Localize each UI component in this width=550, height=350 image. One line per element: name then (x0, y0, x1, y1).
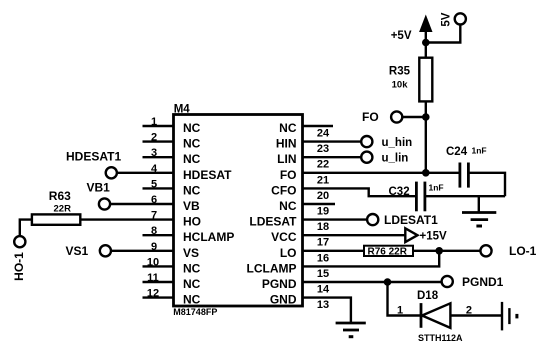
ground symbol bar 1 (462, 211, 496, 214)
svg-text:NC: NC (183, 277, 201, 291)
svg-text:VCC: VCC (271, 230, 297, 244)
pin 19 stub (303, 203, 336, 205)
capacitor C24 right plate (467, 163, 470, 188)
svg-text:3: 3 (151, 147, 157, 159)
terminal HO-1 (14, 236, 25, 247)
ground symbol bar 2 (471, 218, 489, 221)
svg-text:VB: VB (183, 199, 200, 213)
pin 14 wire (PGND net) (303, 281, 442, 283)
svg-text:C32: C32 (389, 186, 410, 198)
svg-text:4: 4 (151, 163, 158, 175)
svg-text:LO-1: LO-1 (509, 244, 537, 258)
pin 4 wire to HDESAT1 terminal (117, 172, 174, 174)
pin 11 stub (143, 281, 174, 283)
svg-text:17: 17 (317, 237, 329, 249)
wire R63 left to HO-1 (20, 220, 32, 237)
svg-text:LIN: LIN (277, 152, 296, 166)
power +15V arrow symbol (405, 228, 417, 242)
svg-text:VB1: VB1 (87, 181, 111, 195)
svg-text:CFO: CFO (271, 183, 296, 197)
junction on FO net at pin 21 wire (422, 169, 430, 177)
junction +5V node (422, 39, 430, 47)
svg-text:C24: C24 (446, 146, 468, 158)
terminal VB1 (99, 198, 110, 209)
ground symbol (pin 13) bar 1 (336, 322, 366, 325)
pin 10 stub (143, 265, 174, 267)
svg-text:NC: NC (183, 121, 201, 135)
wire FO terminal to junction (402, 116, 426, 118)
svg-text:1: 1 (151, 116, 157, 128)
pin 5 stub (143, 187, 174, 189)
svg-text:NC: NC (183, 293, 201, 307)
resistor R76 body (364, 246, 413, 256)
terminal LDESAT1 (367, 214, 378, 225)
svg-text:HDESAT1: HDESAT1 (66, 150, 121, 164)
diode D18 triangle (422, 303, 450, 328)
ground symbol (pin 13) bar 3 (349, 335, 354, 338)
svg-text:D18: D18 (417, 290, 439, 302)
pin 24 stub (303, 125, 334, 127)
svg-text:PGND: PGND (262, 277, 297, 291)
ground symbol bar 3 (476, 225, 482, 228)
resistor R63 body (32, 214, 80, 224)
junction FO tap (422, 113, 430, 121)
svg-text:23: 23 (317, 143, 329, 155)
pin 8 stub (143, 234, 174, 236)
junction PGND net (384, 278, 392, 286)
ground stem (C24/C32 rail) (478, 196, 480, 212)
pin 20 wire to C32 (303, 188, 417, 196)
wire R35 bottom to FO junction and pin21 wire (425, 101, 427, 172)
sideways ground bar 3 (515, 314, 518, 319)
svg-text:2: 2 (466, 305, 472, 317)
svg-text:5V: 5V (441, 12, 453, 26)
terminal FO (391, 111, 402, 122)
svg-text:14: 14 (317, 284, 330, 296)
pin 17 wire to +15V arrow (303, 234, 406, 236)
terminal 5V (455, 13, 466, 24)
svg-text:R76 22R: R76 22R (368, 247, 408, 258)
svg-text:11: 11 (147, 272, 159, 284)
pin 6 wire to VB1 terminal (110, 203, 174, 205)
svg-text:10: 10 (147, 256, 159, 268)
svg-text:STTH112A: STTH112A (418, 333, 463, 343)
svg-text:NC: NC (279, 121, 297, 135)
power +5V arrow symbol (419, 15, 432, 33)
pin 2 stub (143, 140, 174, 142)
pin 1 stub (143, 125, 174, 127)
svg-text:HO: HO (183, 215, 201, 229)
capacitor C32 right plate (423, 182, 426, 212)
wire PGND junction down to diode D18 (388, 282, 422, 316)
pin 13 wire to ground (303, 298, 351, 323)
svg-text:FO: FO (280, 168, 297, 182)
svg-text:24: 24 (317, 128, 330, 140)
capacitor C24 left plate (458, 163, 461, 188)
wire C32 right plate to ground rail (425, 195, 505, 197)
svg-text:15: 15 (317, 268, 329, 280)
capacitor C32 left plate (415, 182, 418, 212)
svg-text:LO: LO (280, 246, 297, 260)
pin 22 wire to u_lin terminal (303, 156, 362, 158)
svg-text:u_lin: u_lin (382, 152, 409, 164)
svg-text:6: 6 (151, 194, 157, 206)
resistor R35 body (419, 58, 432, 102)
svg-text:HO-1: HO-1 (12, 252, 26, 281)
svg-text:VS1: VS1 (66, 244, 89, 258)
svg-text:+15V: +15V (420, 231, 448, 243)
wire +5V arrow to junction (425, 32, 427, 58)
pin 16 wire to R76 (303, 250, 365, 252)
svg-text:VS: VS (183, 246, 199, 260)
svg-text:HDESAT: HDESAT (183, 168, 232, 182)
svg-text:LDESAT1: LDESAT1 (384, 213, 438, 227)
svg-text:LDESAT: LDESAT (249, 215, 297, 229)
svg-text:7: 7 (151, 210, 157, 222)
junction LO net (435, 247, 443, 255)
svg-text:NC: NC (183, 183, 201, 197)
sideways ground bar 1 (501, 302, 503, 331)
svg-text:16: 16 (317, 252, 329, 264)
terminal HDESAT1 (106, 167, 117, 178)
terminal VS1 (100, 245, 111, 256)
svg-text:R35: R35 (389, 66, 411, 78)
svg-text:2: 2 (151, 132, 157, 144)
svg-text:13: 13 (317, 299, 329, 311)
terminal u_hin (361, 136, 372, 147)
svg-text:8: 8 (151, 225, 157, 237)
svg-text:21: 21 (317, 174, 329, 186)
pin 12 stub (143, 296, 174, 298)
diode D18 cathode bar (420, 303, 423, 328)
svg-text:22R: 22R (54, 204, 72, 215)
svg-text:1nF: 1nF (472, 145, 487, 155)
terminal u_lin (361, 152, 372, 163)
pin 9 wire to VS1 terminal (111, 250, 174, 252)
ground symbol (pin 13) bar 2 (343, 329, 359, 332)
svg-text:HIN: HIN (276, 137, 297, 151)
svg-text:10k: 10k (392, 80, 409, 91)
svg-text:20: 20 (317, 190, 329, 202)
svg-text:18: 18 (317, 221, 329, 233)
svg-text:+5V: +5V (391, 30, 412, 42)
svg-text:FO: FO (362, 110, 379, 124)
pin 15 wire to LO net junction (303, 251, 440, 267)
pin 21 wire (FO net) to C24 (303, 172, 460, 174)
wire C24 right plate to corner down to ground rail (468, 173, 505, 196)
svg-text:1nF: 1nF (429, 183, 444, 193)
svg-text:GND: GND (270, 293, 297, 307)
svg-text:NC: NC (183, 137, 201, 151)
svg-text:R63: R63 (49, 189, 71, 203)
svg-text:12: 12 (147, 288, 159, 300)
svg-text:1: 1 (397, 305, 403, 317)
svg-text:M81748FP: M81748FP (173, 307, 217, 317)
svg-text:NC: NC (279, 199, 297, 213)
sideways ground bar 2 (508, 308, 510, 324)
svg-text:NC: NC (183, 152, 201, 166)
wire R76 to LO-1 terminal (413, 250, 480, 252)
svg-text:5: 5 (151, 178, 157, 190)
pin 18 wire to LDESAT1 terminal (303, 218, 368, 220)
wire D18 anode to ground (450, 314, 501, 316)
svg-text:PGND1: PGND1 (462, 275, 504, 289)
svg-text:M4: M4 (174, 104, 191, 116)
svg-text:9: 9 (151, 241, 157, 253)
pin 3 stub (143, 156, 174, 158)
svg-text:19: 19 (317, 206, 329, 218)
svg-text:HCLAMP: HCLAMP (183, 230, 234, 244)
terminal PGND1 (442, 276, 453, 287)
svg-text:LCLAMP: LCLAMP (247, 261, 297, 275)
pin 23 wire to u_hin terminal (303, 140, 362, 142)
pin 7 wire from R63 (80, 218, 173, 220)
svg-text:NC: NC (183, 261, 201, 275)
svg-text:u_hin: u_hin (382, 137, 413, 149)
svg-text:22: 22 (317, 159, 329, 171)
IC U1 (M4) body (174, 115, 303, 307)
terminal LO-1 (480, 245, 491, 256)
wire junction to 5V terminal (426, 24, 461, 43)
